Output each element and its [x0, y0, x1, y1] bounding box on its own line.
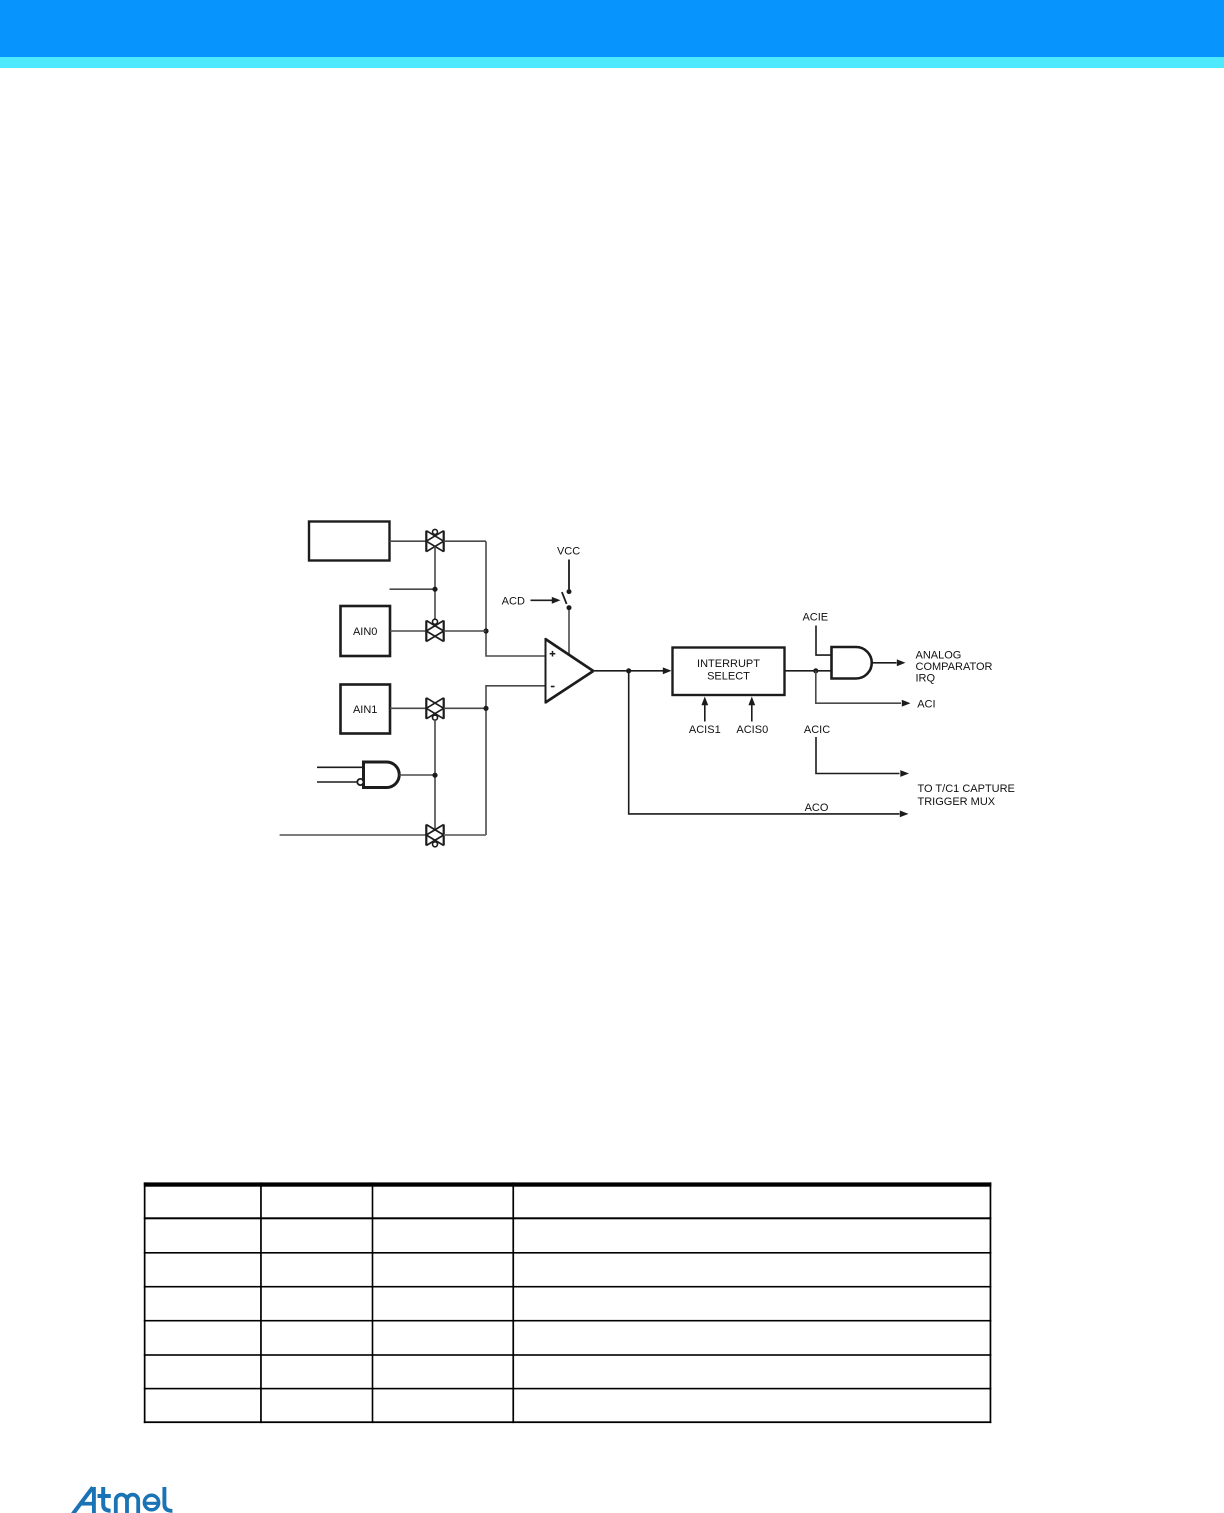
comparator U1 [546, 639, 594, 703]
AND output arrow: ANALOG COMPARATOR IRQ [872, 662, 897, 664]
node: ACI branch [813, 668, 818, 673]
AIN0 input box [341, 606, 391, 656]
ACIE wire to AND gate [816, 626, 832, 656]
ACBG stub wire (label removed) [390, 588, 436, 590]
ACD switch lever [562, 592, 567, 604]
wire SW4 to minus bus corner [444, 834, 486, 836]
svg-text:AIN0: AIN0 [353, 626, 377, 638]
ACI branch wire [816, 671, 901, 703]
svg-text:ACIC: ACIC [804, 724, 830, 736]
svg-text:ACI: ACI [917, 699, 935, 711]
svg-text:ANALOG: ANALOG [916, 649, 962, 661]
plus-input bus wire (right vertical) [486, 541, 546, 656]
AND gate U2 [832, 647, 872, 679]
node: SW3 output joins minus bus [483, 706, 488, 711]
svg-text:INTERRUPT: INTERRUPT [697, 658, 760, 670]
bandgap reference box (label removed) [309, 522, 390, 561]
node: comparator output [626, 668, 631, 673]
analog switch SW4 (ADC mux) [426, 825, 443, 847]
VCC wire [568, 560, 570, 590]
wire switch to comparator power [568, 610, 570, 655]
wire SW3 to minus bus [444, 707, 486, 709]
SW3 control wire down to NAND output node and SW4 [434, 720, 436, 830]
wire interrupt select to AND gate [785, 670, 832, 672]
ACIC wire to capture trigger [816, 737, 900, 774]
node: switch bottom [567, 605, 572, 610]
svg-text:AIN1: AIN1 [353, 704, 377, 716]
node: switch top [567, 589, 572, 594]
ADC multiplexer output wire (label removed) [280, 834, 427, 836]
svg-text:COMPARATOR: COMPARATOR [916, 661, 993, 673]
ACD arrow [531, 599, 554, 601]
wire NAND output to control bus [399, 774, 435, 776]
analog switch SW2 (AIN0) [426, 619, 443, 641]
svg-text:VCC: VCC [557, 545, 580, 557]
wire SW1 to right bus [444, 540, 486, 542]
minus-input bus wire (right vertical from bottom wire) [486, 686, 546, 835]
node: SW2 output joins plus bus [483, 628, 488, 633]
SW1 control wire down to SW2 [434, 547, 436, 620]
NAND gate (ACME/ADEN, labels removed) [317, 762, 399, 788]
wire AIN0 to SW2 [390, 630, 426, 632]
Atmel logo (cut off at page bottom) [73, 1487, 173, 1513]
analog switch SW1 (bandgap) [426, 529, 443, 551]
svg-text:TO T/C1 CAPTURE: TO T/C1 CAPTURE [918, 783, 1015, 795]
svg-text:ACIE: ACIE [802, 612, 828, 624]
svg-text:SELECT: SELECT [707, 671, 750, 683]
svg-text:ACIS0: ACIS0 [736, 724, 768, 736]
svg-text:ACIS1: ACIS1 [689, 724, 721, 736]
analog switch SW3 (AIN1) [426, 698, 443, 720]
node: ACBG joins control wire [432, 587, 437, 592]
wire SW2 to plus bus [444, 630, 486, 632]
node: NAND output joins control bus [432, 773, 437, 778]
svg-text:IRQ: IRQ [916, 673, 936, 685]
wire AIN1 to SW3 [390, 707, 426, 709]
ACIS0 control arrow [751, 704, 753, 722]
svg-text:ACO: ACO [805, 802, 829, 814]
comparator output wire to interrupt select [594, 670, 664, 672]
interrupt select box [673, 648, 785, 696]
svg-text:TRIGGER MUX: TRIGGER MUX [918, 796, 996, 808]
svg-text:ACD: ACD [502, 596, 525, 608]
register summary table (empty) [144, 1182, 992, 1423]
ACO branch wire [629, 671, 900, 814]
ACIS1 control arrow [704, 704, 706, 722]
wire bandgap box to switch SW1 [390, 540, 427, 542]
AIN1 input box [341, 685, 391, 734]
